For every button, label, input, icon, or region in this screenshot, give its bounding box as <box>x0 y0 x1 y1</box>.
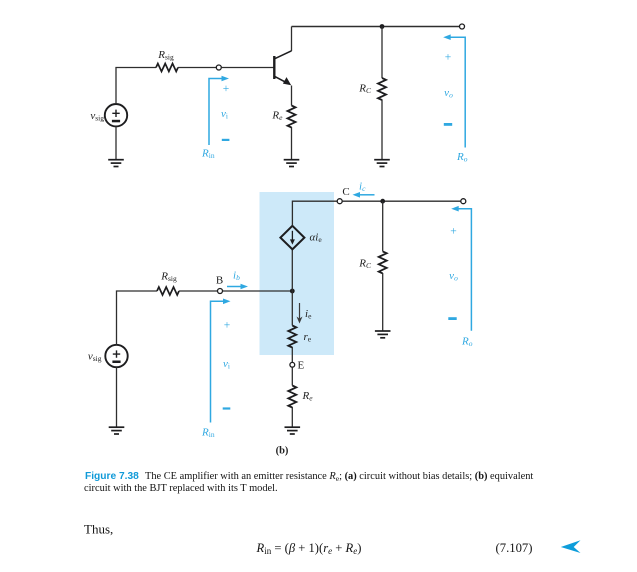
voltage source vsig (b) <box>105 345 127 367</box>
wire E to Re (b) <box>291 367 293 385</box>
ground vsig (b) <box>109 427 125 434</box>
transistor Q1 (a) <box>274 51 291 85</box>
junction dot rail (b) <box>380 199 385 204</box>
svg-text:vi: vi <box>223 358 230 371</box>
ground RC (a) <box>374 160 390 167</box>
dependent source alpha-ie (b) <box>280 226 304 250</box>
svg-text:vo: vo <box>449 270 458 283</box>
label vi (b) <box>223 358 230 371</box>
ic arrow (b) <box>353 192 375 198</box>
wire RC to ground (a) <box>381 100 383 160</box>
label C (b) <box>342 186 349 198</box>
label vsig (a) <box>90 110 104 123</box>
wire node to base (a) <box>221 67 273 69</box>
wire RC from rail (b) <box>382 201 384 251</box>
Ro arrowhead (b) <box>451 206 459 212</box>
resistor Rsig (b) <box>157 287 179 295</box>
svg-text:vo: vo <box>444 87 453 100</box>
voltage source vsig (a) <box>105 104 127 126</box>
label vo (b) <box>449 270 458 283</box>
label vo (a) <box>444 87 453 100</box>
output terminal (a) <box>460 24 465 29</box>
ground vsig (a) <box>108 160 124 167</box>
label Ro (a) <box>456 151 468 164</box>
Rin bracket (a) <box>209 79 223 146</box>
label minus vi (b) <box>223 407 231 409</box>
equation 7.107 <box>256 541 362 556</box>
label B (b) <box>216 275 223 287</box>
label minus vo (b) <box>448 317 456 320</box>
svg-text:+: + <box>450 226 457 238</box>
label plus vi (a) <box>223 83 230 95</box>
svg-text:Figure 7.38The CE amplifier wi: Figure 7.38The CE amplifier with an emit… <box>85 471 533 483</box>
Ro bracket (b) <box>457 209 471 331</box>
svg-text:Ro: Ro <box>461 336 473 349</box>
wire Re to ground (b) <box>291 407 293 427</box>
label RC (a) <box>358 83 372 96</box>
svg-text:Rin = (β + 1)(re + Re): Rin = (β + 1)(re + Re) <box>256 541 362 556</box>
label plus vo (a) <box>445 52 452 64</box>
resistor RC (b) <box>379 251 387 273</box>
wire RC to ground (b) <box>382 273 384 331</box>
label Ro (b) <box>461 336 473 349</box>
Rin bracket (b) <box>211 301 225 422</box>
svg-text:(7.107): (7.107) <box>496 541 533 555</box>
label E (b) <box>298 360 305 372</box>
text Thus <box>84 522 113 537</box>
svg-text:Ro: Ro <box>456 151 468 164</box>
svg-text:E: E <box>298 360 305 372</box>
ie arrow (b) <box>297 303 303 324</box>
label minus vo (a) <box>444 123 452 126</box>
junction dot B (b) <box>290 289 295 294</box>
wire diamond top to corner to node C (b) <box>292 201 337 226</box>
wire node B to junction (b) <box>223 290 293 292</box>
svg-text:Re: Re <box>302 390 314 403</box>
resistor re (b) <box>288 326 296 348</box>
svg-text:B: B <box>216 275 223 287</box>
wire vsig top to Rsig (a) <box>116 68 156 105</box>
output terminal (b) <box>461 199 466 204</box>
svg-text:Rin: Rin <box>201 148 215 161</box>
label Re (b) <box>302 390 314 403</box>
node E circle (b) <box>290 362 295 367</box>
svg-text:vsig: vsig <box>90 110 104 123</box>
svg-text:ic: ic <box>359 181 366 194</box>
ground Re (b) <box>285 427 301 434</box>
label plus vi (b) <box>224 320 231 332</box>
label minus vi (a) <box>222 139 230 141</box>
label Rsig (a) <box>157 49 174 62</box>
Rin arrowhead (b) <box>223 299 231 305</box>
wire Re to ground (a) <box>291 127 293 160</box>
label ic (b) <box>359 181 366 194</box>
wire C to terminal (b) <box>342 200 461 202</box>
wire re to node E (b) <box>291 347 293 362</box>
svg-text:+: + <box>223 83 230 95</box>
label plus vo (b) <box>450 226 457 238</box>
svg-text:Re: Re <box>271 110 283 123</box>
Ro bracket (a) <box>449 37 465 147</box>
equation number <box>496 541 533 555</box>
wire junction up to diamond (b) <box>291 250 293 292</box>
input node circle (a) <box>216 65 221 70</box>
wire junction to re (b) <box>291 291 293 326</box>
svg-text:vi: vi <box>221 108 228 121</box>
wire RC from rail (a) <box>381 27 383 79</box>
figure caption line 1 <box>85 471 533 483</box>
svg-text:Rsig: Rsig <box>157 49 174 62</box>
highlight box (b) <box>260 192 335 355</box>
ground Re (a) <box>284 160 300 167</box>
svg-text:RC: RC <box>358 83 372 96</box>
resistor Rsig (a) <box>156 64 178 72</box>
emitter wire (a) <box>291 86 293 106</box>
svg-text:(b): (b) <box>276 446 289 457</box>
label ib (b) <box>233 270 240 283</box>
ib arrow (b) <box>227 284 248 290</box>
label ie (b) <box>305 308 312 321</box>
end-of-example arrow <box>561 540 581 553</box>
svg-text:Rsig: Rsig <box>160 271 177 284</box>
label Rin (b) <box>201 427 215 440</box>
label re (b) <box>304 331 312 344</box>
label RC (b) <box>358 258 372 271</box>
label alpha-ie (b) <box>310 232 323 245</box>
resistor RC (a) <box>378 78 386 100</box>
wire vsig to ground (a) <box>115 126 117 159</box>
svg-text:C: C <box>342 186 349 198</box>
node B circle (b) <box>218 289 223 294</box>
figure caption line 2 <box>84 483 278 494</box>
svg-text:circuit with the BJT replaced: circuit with the BJT replaced with its T… <box>84 483 278 494</box>
svg-text:ib: ib <box>233 270 240 283</box>
Ro arrowhead (a) <box>443 34 451 40</box>
label Rsig (b) <box>160 271 177 284</box>
Rin arrowhead (a) <box>222 76 230 82</box>
svg-text:RC: RC <box>358 258 372 271</box>
wire Rsig to node B (b) <box>179 290 218 292</box>
label vi (a) <box>221 108 228 121</box>
resistor Re (a) <box>288 106 296 128</box>
ground RC (b) <box>375 331 391 338</box>
label vsig (b) <box>88 351 102 364</box>
label Rin (a) <box>201 148 215 161</box>
svg-text:Rin: Rin <box>201 427 215 440</box>
wire vsig top to Rsig (b) <box>117 291 158 345</box>
wire collector up (a) <box>291 27 293 52</box>
label Re (a) <box>271 110 283 123</box>
svg-text:+: + <box>445 52 452 64</box>
node C circle (b) <box>337 199 342 204</box>
svg-text:+: + <box>224 320 231 332</box>
wire Rsig to node (a) <box>178 67 216 69</box>
resistor Re (b) <box>288 386 296 408</box>
svg-text:Thus,: Thus, <box>84 522 113 537</box>
label (b) sublabel <box>276 446 289 457</box>
junction dot top rail (a) <box>380 24 385 29</box>
svg-text:vsig: vsig <box>88 351 102 364</box>
wire vsig to ground (b) <box>116 367 118 427</box>
top rail (a) <box>292 26 460 28</box>
